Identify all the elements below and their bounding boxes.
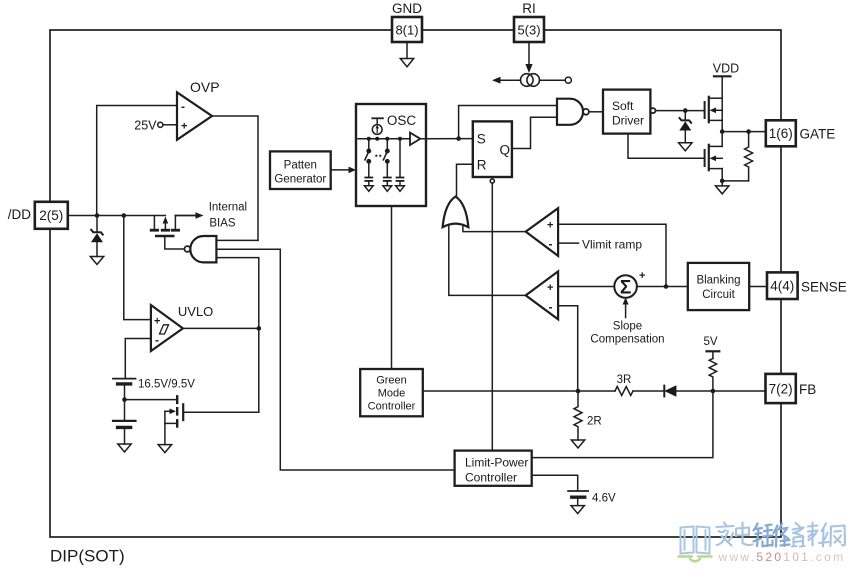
node battery junction — [122, 397, 127, 402]
MOSFET M1 (high side) — [705, 97, 723, 132]
VDD supply — [713, 62, 739, 99]
svg-text:GND: GND — [392, 1, 422, 16]
wire Q1 gate to NAND1 output — [165, 236, 183, 249]
OSC switch S2 — [383, 139, 389, 177]
node bottom junction — [720, 179, 725, 184]
svg-text:1(6): 1(6) — [769, 126, 793, 141]
svg-text:/DD: /DD — [8, 207, 32, 222]
svg-text:+: + — [547, 219, 553, 231]
wire OR input right (from Vlimit comparator) — [463, 225, 526, 232]
svg-text:RI: RI — [522, 1, 536, 16]
comparator U4 Vlimit (pointing left) — [526, 208, 558, 256]
svg-text:Compensation: Compensation — [590, 334, 664, 346]
svg-text:-: - — [549, 300, 553, 314]
OSC current source — [372, 118, 383, 134]
wire U5 - input to FB divider node — [558, 306, 578, 391]
wire Blanking to SENSE pin — [749, 286, 767, 288]
wire OVP inverting input — [97, 106, 177, 216]
watermark book icon — [681, 527, 710, 554]
battery 4.6V reference — [568, 491, 616, 506]
5V pullup — [704, 336, 720, 391]
OR gate G2 (pointing up) — [443, 197, 469, 228]
wire Green Mode Controller to FB divider rail — [423, 390, 615, 392]
wire mid node to GATE pin — [722, 131, 766, 133]
svg-text:FB: FB — [799, 382, 816, 397]
svg-text:Patten: Patten — [284, 160, 317, 172]
svg-text:Σ: Σ — [620, 278, 631, 299]
svg-text:5V: 5V — [704, 336, 718, 348]
wire NAND2 output to Soft Driver — [589, 111, 603, 113]
svg-text:VDD: VDD — [713, 62, 739, 76]
ground below 2R — [571, 440, 584, 448]
svg-text:UVLO: UVLO — [178, 304, 213, 319]
svg-text:+: + — [154, 315, 160, 327]
OSC capacitor C1 — [365, 178, 372, 186]
wire UVLO - input to battery — [125, 339, 151, 379]
svg-text:Soft: Soft — [612, 99, 634, 113]
flip-flop inverted output bubble — [490, 179, 494, 183]
wire FB node down to Limit-Power Controller — [532, 391, 713, 458]
node OSC rail junctions — [367, 137, 402, 141]
open terminal circle right of current source — [540, 77, 572, 83]
node zener tap junction — [683, 108, 688, 113]
ground below zener D2 — [679, 143, 692, 151]
svg-text:Controller: Controller — [368, 401, 416, 413]
node 2R divider junction — [576, 389, 581, 394]
svg-text:Vlimit ramp: Vlimit ramp — [582, 237, 642, 251]
svg-text:5(3): 5(3) — [517, 23, 540, 38]
wire Q output to NAND2 input B — [512, 117, 557, 148]
internal bias MOSFET Q1 (three stubs from rail) — [151, 216, 178, 237]
Green Mode Controller block — [360, 369, 423, 416]
ground below zener D1 — [90, 257, 103, 265]
wire /DD rail — [68, 215, 166, 217]
ground below 4.6V — [571, 506, 584, 514]
svg-text:R: R — [477, 158, 487, 173]
arrow to Internal BIAS label — [175, 202, 247, 230]
svg-text:Slope: Slope — [613, 321, 642, 333]
pin GATE 1(6) — [766, 120, 835, 146]
ground below C2 — [383, 186, 392, 192]
svg-text:Mode: Mode — [378, 388, 406, 400]
svg-text:Blanking: Blanking — [696, 275, 740, 287]
svg-text:OVP: OVP — [190, 79, 220, 95]
Soft Driver block — [603, 90, 656, 134]
svg-text:7(2): 7(2) — [769, 382, 793, 397]
Limit-Power Controller block — [455, 451, 532, 486]
MOSFET Q2 (UVLO pulldown) — [165, 396, 183, 444]
ground below battery — [118, 444, 131, 452]
current source I_RI (two overlapping circles) — [521, 74, 540, 87]
wire summer to SENSE node — [637, 286, 688, 288]
node OSC output junction — [456, 136, 461, 141]
wire R input from OR gate — [457, 164, 473, 197]
MOSFET M2 (low side) — [705, 132, 723, 181]
wire G1 input A (from OVP) — [216, 239, 258, 241]
pin GND 8(1) — [392, 1, 422, 42]
svg-text:25V: 25V — [134, 119, 157, 133]
svg-text:S: S — [477, 132, 486, 147]
ground below C1 — [364, 186, 373, 192]
svg-text:Generator: Generator — [274, 174, 326, 186]
resistor 2R — [574, 391, 602, 440]
svg-text:3R: 3R — [617, 374, 632, 386]
wire 3R to diode — [633, 390, 664, 392]
svg-text:BIAS: BIAS — [209, 218, 236, 230]
resistor R1 gate pulldown — [745, 132, 753, 181]
node FB junction — [711, 389, 716, 394]
OSC block — [356, 104, 426, 206]
Vlimit ramp input — [558, 237, 642, 251]
wire battery node to Q2 gate — [125, 399, 177, 401]
svg-text:4(4): 4(4) — [770, 279, 794, 294]
svg-text:+: + — [547, 282, 553, 294]
svg-text:SENSE: SENSE — [801, 280, 847, 295]
svg-text:-: - — [549, 237, 553, 251]
OSC switch S1 — [365, 139, 371, 177]
svg-text:DIP(SOT): DIP(SOT) — [50, 547, 125, 566]
wire U5 + input to summer — [558, 286, 614, 288]
wire flip-flop bottom to Limit-Power Controller — [491, 183, 493, 451]
summer (slope compensation adder) — [614, 270, 645, 299]
OSC capacitor C2 — [384, 178, 391, 186]
svg-text:-: - — [155, 333, 159, 347]
svg-text:www.520101.com: www.520101.com — [718, 550, 846, 564]
svg-text:Internal: Internal — [209, 202, 247, 214]
comparator U5 OCP (pointing left) — [526, 271, 558, 319]
wire RI pin down with arrow — [525, 42, 532, 73]
node driver output mid point — [720, 129, 725, 134]
PLACEHOLDER-WIRES — [8, 1, 572, 470]
svg-text:Circuit: Circuit — [702, 289, 735, 301]
svg-text:Limit-Power: Limit-Power — [465, 456, 528, 470]
svg-text:16.5V/9.5V: 16.5V/9.5V — [138, 379, 195, 391]
pin RI 5(3) — [514, 1, 544, 42]
svg-text:2(5): 2(5) — [39, 208, 63, 223]
Slope Compensation label with arrow — [590, 297, 664, 345]
wire Soft Driver output to M1 gate — [656, 110, 705, 112]
battery 16.5V/9.5V — [113, 379, 195, 421]
node sense signal junction — [664, 284, 669, 289]
OSC capacitor C3 — [397, 139, 404, 186]
SR flip-flop U3 — [473, 121, 512, 177]
svg-text:Green: Green — [376, 375, 407, 387]
wire OVP output — [212, 116, 258, 240]
25V reference input — [134, 119, 177, 133]
NAND gate G3 — [557, 99, 589, 125]
wire G1 input C (from UVLO) — [216, 258, 258, 413]
ground at totem pole source — [716, 181, 729, 194]
svg-text:4.6V: 4.6V — [592, 493, 616, 505]
wire UVLO + input from /DD rail — [124, 216, 151, 320]
svg-text:+: + — [181, 121, 187, 133]
wire left from current source with arrowhead — [492, 77, 521, 84]
OSC timing rail — [358, 138, 410, 140]
NAND gate G1 (mirrored, output on left) — [184, 236, 216, 262]
svg-text:Driver: Driver — [612, 114, 644, 128]
svg-text:+: + — [639, 270, 645, 282]
resistor 3R — [615, 374, 633, 396]
pin FB 7(2) — [766, 374, 817, 403]
zener diode D1 at VDD pin — [91, 216, 103, 257]
node UVLO output junction — [257, 326, 262, 331]
wire bottom node to resistor — [722, 180, 748, 182]
wire OR input left (from OCP comparator) — [449, 225, 526, 296]
wire Soft Driver bottom to M2 gate — [628, 134, 704, 159]
wire UVLO output — [183, 327, 259, 329]
wire G1 input B (from Limit-Power controller) — [216, 249, 454, 470]
node junction on /DD rail to UVLO — [122, 213, 127, 218]
zener diode D2 at driver output — [679, 111, 691, 143]
ground at GND pin — [400, 42, 413, 67]
pin /DD 2(5) — [8, 202, 68, 229]
svg-text:Controller: Controller — [465, 471, 517, 485]
ground at Q2 source — [158, 445, 171, 453]
wire junction up to NAND2 input A — [459, 106, 557, 139]
svg-text:2R: 2R — [587, 416, 602, 428]
Blanking Circuit block — [688, 263, 749, 310]
svg-text:-: - — [181, 100, 185, 114]
pin SENSE 4(4) — [767, 272, 847, 299]
dots between switches — [375, 155, 381, 157]
wire Q2 drain to UVLO output node — [184, 411, 258, 413]
svg-text:8(1): 8(1) — [395, 23, 418, 38]
watermark Chinese text 家电维修资料网 (stroke approximation) — [717, 523, 753, 546]
wire Patten Generator to OSC with arrow — [331, 167, 356, 174]
svg-text:Q: Q — [500, 143, 511, 158]
node resistor tap — [746, 129, 751, 134]
diode D3 (pointing left) — [664, 385, 765, 397]
wire OSC bottom to Green Mode Controller — [391, 206, 393, 369]
svg-text:GATE: GATE — [800, 127, 836, 142]
Patten Generator block — [270, 151, 331, 189]
ground below C3 — [396, 186, 405, 192]
battery lower cell — [113, 421, 136, 444]
wire OSC output to flip-flop S — [420, 138, 473, 140]
node junction on /DD rail — [95, 213, 100, 218]
wire U4 + input from sense node — [558, 224, 666, 286]
UVLO comparator U2 — [151, 304, 213, 351]
IC outer boundary frame — [50, 30, 781, 537]
OVP comparator U-OVP — [177, 79, 220, 140]
svg-text:OSC: OSC — [387, 113, 417, 128]
OSC buffer triangle — [410, 133, 420, 145]
wire Limit-Power to 4.6V reference — [532, 475, 578, 490]
